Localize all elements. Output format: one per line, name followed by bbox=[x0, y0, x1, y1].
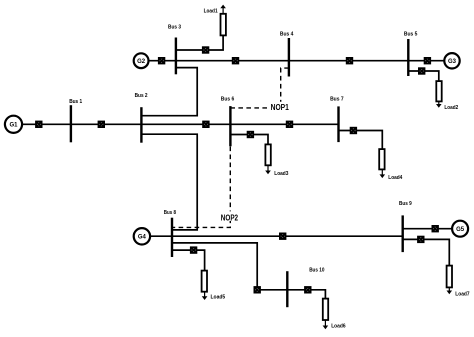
switch S17 Bus9-G5 bbox=[432, 226, 438, 232]
switch S5 G2-Bus3 bbox=[159, 58, 165, 64]
svg-text:G3: G3 bbox=[448, 58, 456, 65]
bus bar Bus 3 bbox=[175, 38, 177, 75]
wire G5 line from bus9 bbox=[403, 228, 453, 230]
load Load5 bbox=[202, 271, 226, 301]
svg-text:Bus 6: Bus 6 bbox=[221, 97, 235, 103]
svg-text:Bus 8: Bus 8 bbox=[164, 210, 177, 216]
svg-text:Load7: Load7 bbox=[455, 291, 470, 297]
switch S1 G1-Bus1 bbox=[36, 122, 42, 128]
wire load4 branch from bus7 bbox=[339, 131, 383, 150]
bus bar Bus 9 bbox=[402, 215, 404, 252]
wire bottom main line G4 to bus9 bbox=[150, 235, 403, 237]
svg-text:Bus 5: Bus 5 bbox=[404, 32, 418, 38]
node NOP2 label bbox=[220, 211, 240, 222]
wire load5 branch from bus8 bbox=[172, 250, 205, 271]
svg-text:Bus 10: Bus 10 bbox=[309, 268, 325, 274]
generator G2 bbox=[134, 53, 149, 68]
svg-text:Load2: Load2 bbox=[444, 105, 458, 111]
svg-text:G5: G5 bbox=[456, 226, 464, 233]
svg-text:Bus 1: Bus 1 bbox=[69, 99, 83, 105]
switch S6 Load1 feeder bbox=[203, 47, 209, 53]
node NOP1 label bbox=[269, 102, 293, 112]
svg-text:G2: G2 bbox=[137, 58, 145, 65]
wire load2 branch from bus5 bbox=[408, 71, 439, 81]
svg-text:Load3: Load3 bbox=[274, 171, 289, 177]
svg-text:G4: G4 bbox=[138, 234, 146, 241]
wire NOP1 dashed tie bus4 to bus6 bbox=[230, 68, 289, 108]
load Load7 bbox=[447, 266, 471, 298]
wire NOP2 dashed tie bus6 to bus8 bbox=[173, 147, 230, 228]
wire middle main line G1 to bus7 bbox=[22, 123, 339, 125]
switch S9 Bus5-G3 bbox=[425, 58, 431, 64]
generator G4 bbox=[134, 228, 150, 244]
wire bus8 to bus10 branch bbox=[172, 243, 325, 299]
bus bar Bus 10 bbox=[286, 271, 288, 307]
wire bus2 to bus8 connector bbox=[141, 134, 197, 230]
switch S15 Bus10 right bbox=[305, 287, 311, 293]
bus bar Bus 8 bbox=[171, 218, 173, 257]
switch S12 Load4 feeder bbox=[351, 128, 357, 134]
wire load3 branch from bus6 bbox=[230, 135, 268, 145]
wire load1 branch from bus3 bbox=[176, 35, 223, 50]
switch S16 Load5 feeder bbox=[191, 247, 197, 253]
bus bar Bus 6 bbox=[229, 106, 231, 146]
bus bar Bus 7 bbox=[337, 106, 339, 142]
generator G3 bbox=[444, 53, 459, 68]
load Load4 bbox=[379, 149, 403, 181]
switch S18 Load7 feeder bbox=[418, 237, 424, 243]
bus bar Bus 4 bbox=[288, 38, 290, 77]
wire load7 branch from bus9 bbox=[403, 239, 450, 265]
svg-text:Bus 3: Bus 3 bbox=[168, 25, 182, 31]
generator G1 bbox=[5, 116, 22, 133]
svg-text:NOP2: NOP2 bbox=[221, 212, 238, 222]
wire top main line G2 to G3 bbox=[148, 60, 444, 62]
load Load6 bbox=[323, 299, 347, 330]
svg-text:NOP1: NOP1 bbox=[271, 102, 289, 112]
svg-text:Bus 9: Bus 9 bbox=[399, 201, 412, 207]
svg-text:Load6: Load6 bbox=[331, 323, 346, 329]
switch S4 Bus6-Bus7 bbox=[287, 122, 293, 128]
svg-text:Bus 4: Bus 4 bbox=[280, 32, 294, 38]
load Load2 bbox=[436, 81, 459, 111]
bus bar Bus 2 bbox=[140, 107, 142, 143]
bus bar Bus 5 bbox=[407, 39, 409, 76]
svg-text:Bus 2: Bus 2 bbox=[135, 93, 149, 99]
load Load1 bbox=[204, 5, 226, 36]
svg-text:Load4: Load4 bbox=[388, 175, 403, 181]
svg-text:Load5: Load5 bbox=[211, 294, 226, 300]
switch S10 Load2 feeder bbox=[419, 68, 425, 74]
load Load3 bbox=[265, 144, 289, 177]
switch S11 Load3 feeder bbox=[248, 132, 254, 138]
switch S8 Bus4-Bus5 bbox=[347, 58, 353, 64]
generator G5 bbox=[452, 221, 468, 237]
switch S2 Bus1-Bus2 bbox=[99, 122, 105, 128]
switch S7 Bus3-Bus4 bbox=[233, 58, 239, 64]
wire bus3 to bus2 connector bbox=[141, 68, 197, 116]
svg-text:Load1: Load1 bbox=[204, 9, 219, 15]
switch S3 Bus2-Bus6 bbox=[203, 122, 209, 128]
svg-text:G1: G1 bbox=[10, 122, 18, 129]
switch S14 Bus10 left bbox=[254, 287, 260, 293]
bus bar Bus 1 bbox=[70, 105, 72, 142]
svg-text:Bus 7: Bus 7 bbox=[330, 97, 344, 103]
switch S13 Bus8-Bus9 main bbox=[280, 233, 286, 239]
